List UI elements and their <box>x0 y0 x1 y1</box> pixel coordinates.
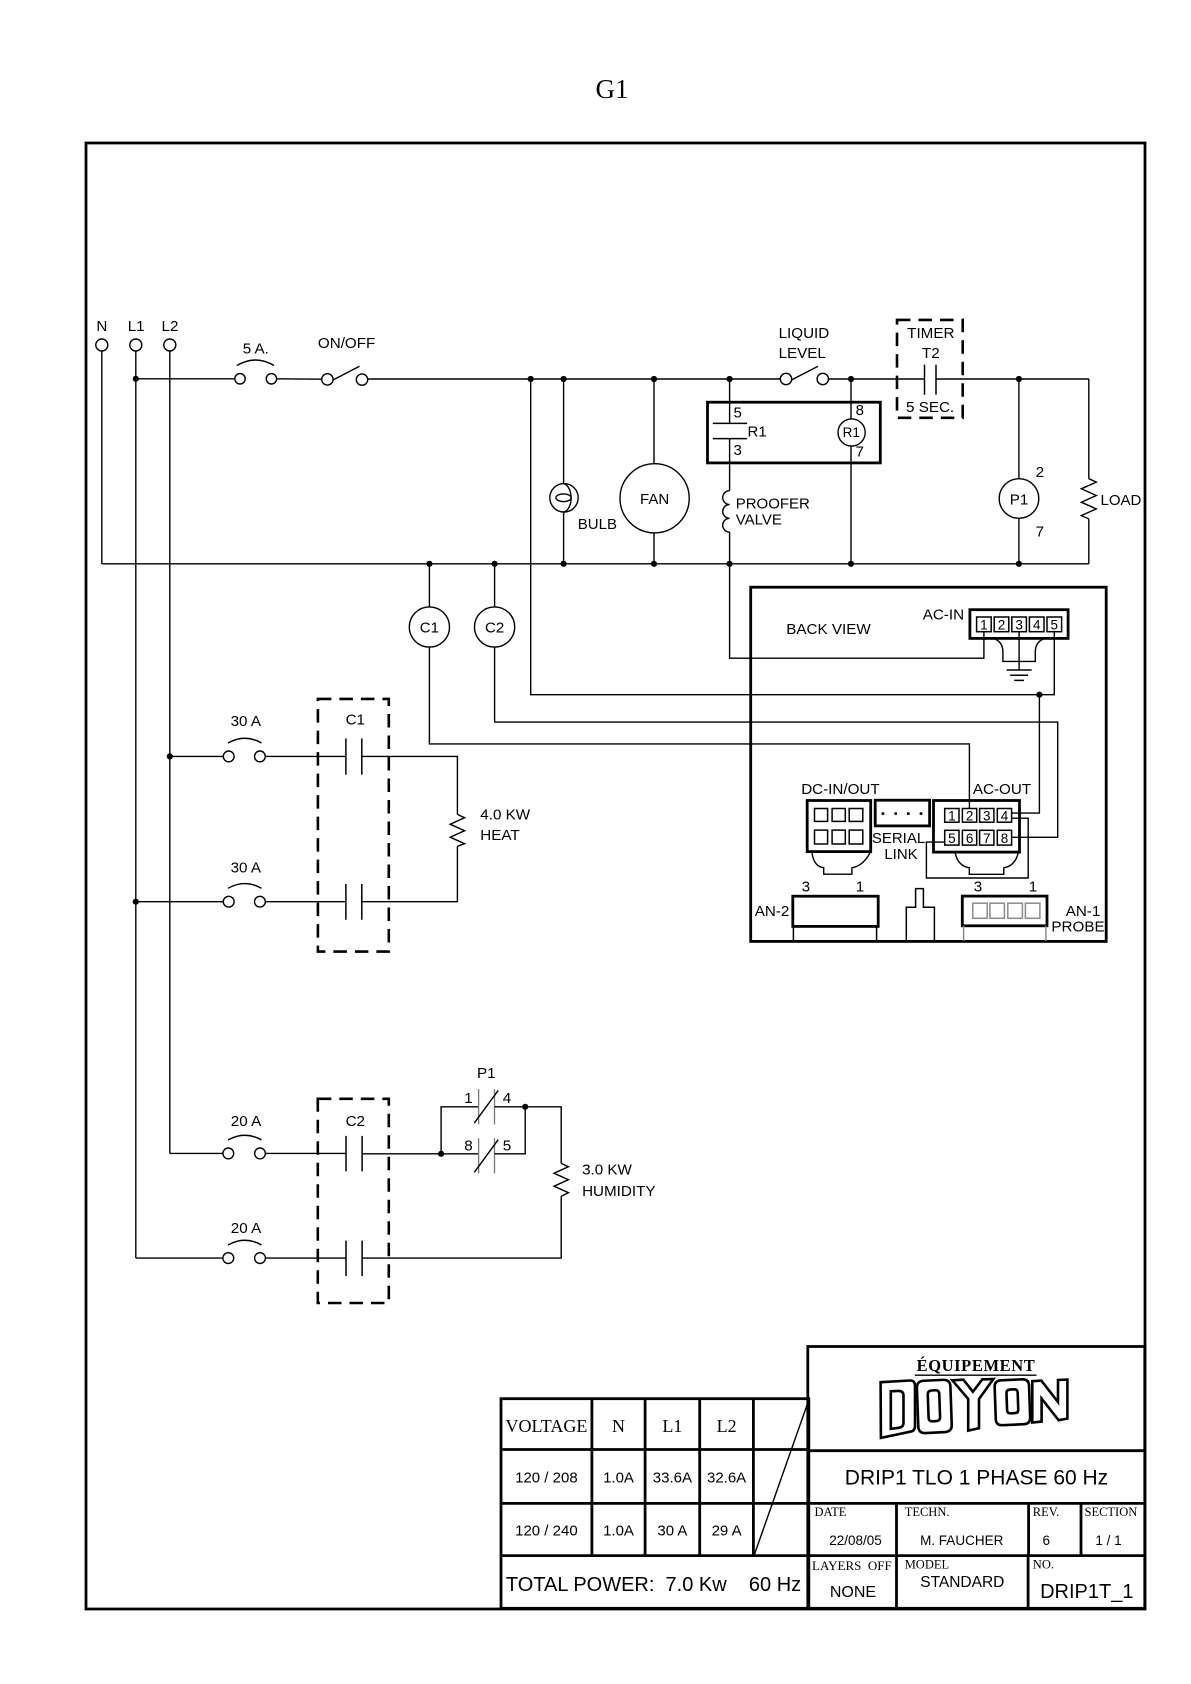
contactor C2 contact1 plates <box>346 1136 362 1172</box>
svg-text:AN-2: AN-2 <box>755 903 790 920</box>
breaker 20A row1 contacts <box>223 1148 234 1159</box>
junction P1 block left <box>438 1151 444 1157</box>
svg-text:4: 4 <box>1001 808 1009 823</box>
wire L2 to breaker1 <box>170 755 224 757</box>
terminal L1 <box>130 339 142 351</box>
wire heater to C1 contact2 <box>362 846 458 901</box>
svg-text:SERIAL: SERIAL <box>872 830 925 847</box>
svg-text:5: 5 <box>948 831 956 846</box>
svg-text:33.6A: 33.6A <box>653 1470 692 1487</box>
fuse F1 arc <box>237 360 274 366</box>
wire breaker4 to C2 contact2 <box>265 1257 346 1259</box>
svg-text:6: 6 <box>966 831 974 846</box>
motor FAN <box>620 464 689 533</box>
breaker 30A row1 contacts <box>223 751 234 762</box>
connector DC-IN/OUT outline <box>807 801 871 852</box>
wire L1 to breaker2 <box>136 901 224 903</box>
wire AC-IN pin2 arc <box>994 639 1045 662</box>
wire AC-IN feed <box>531 379 1055 695</box>
wire L1 to breaker4 <box>136 1257 223 1259</box>
svg-text:ÉQUIPEMENT: ÉQUIPEMENT <box>917 1356 1036 1375</box>
logo DOYON letter D <box>881 1380 915 1437</box>
voltage table row lines <box>501 1450 809 1556</box>
wire P1 coil bottom <box>1018 518 1020 564</box>
timer T2 contact plates <box>925 365 937 395</box>
voltage table outline <box>501 1399 809 1609</box>
svg-text:3: 3 <box>974 878 982 895</box>
junction top AC-IN drop <box>528 376 534 382</box>
wire timer to load corner <box>936 378 1089 380</box>
svg-text:7: 7 <box>1036 524 1044 541</box>
svg-text:T2: T2 <box>922 345 940 362</box>
svg-text:1 / 1: 1 / 1 <box>1095 1533 1121 1548</box>
svg-text:1.0A: 1.0A <box>603 1523 634 1540</box>
svg-text:29 A: 29 A <box>712 1523 742 1540</box>
keying post <box>906 889 934 941</box>
wire P1 contact 1-4 right <box>495 1106 526 1108</box>
svg-text:VALVE: VALVE <box>736 511 782 528</box>
connector AC-OUT outline <box>934 801 1020 853</box>
junction bottom R1 <box>848 561 854 567</box>
svg-text:SECTION: SECTION <box>1085 1505 1138 1519</box>
resistor 3.0KW HUMIDITY <box>554 1163 568 1196</box>
svg-text:DRIP1 TLO 1 PHASE 60 Hz: DRIP1 TLO 1 PHASE 60 Hz <box>845 1467 1108 1490</box>
svg-text:DC-IN/OUT: DC-IN/OUT <box>801 781 879 798</box>
svg-text:M. FAUCHER: M. FAUCHER <box>920 1533 1004 1548</box>
wire liquid level to timer <box>829 378 925 380</box>
svg-text:20 A: 20 A <box>231 1113 262 1130</box>
svg-text:ON/OFF: ON/OFF <box>318 335 375 352</box>
svg-text:30 A: 30 A <box>231 713 262 730</box>
junction P1 coil drop <box>1016 376 1022 382</box>
svg-text:7: 7 <box>983 831 991 846</box>
svg-text:3: 3 <box>802 878 810 895</box>
contactor coil C2 <box>475 607 515 647</box>
connector AN-2 box <box>793 896 878 926</box>
switch LIQUID LEVEL right contact <box>817 373 828 384</box>
switch P1 contact 8-5 plates <box>479 1138 495 1173</box>
wire P1 coil top <box>1018 379 1020 479</box>
svg-text:LIQUID: LIQUID <box>779 325 830 342</box>
terminal N <box>96 339 108 351</box>
logo DOYON letter Y <box>952 1379 993 1431</box>
connector AC-OUT pin numbers <box>948 808 1009 846</box>
svg-text:AC-OUT: AC-OUT <box>973 781 1031 798</box>
svg-text:5: 5 <box>503 1138 511 1155</box>
svg-text:4.0 KW: 4.0 KW <box>480 807 530 824</box>
inductor PROOFER VALVE <box>723 491 730 532</box>
resistor LOAD <box>1081 479 1096 519</box>
svg-text:2: 2 <box>998 618 1006 633</box>
svg-text:2: 2 <box>1036 464 1044 481</box>
junction L2 <box>167 753 173 759</box>
svg-text:20 A: 20 A <box>231 1220 262 1237</box>
wire breaker1 to C1 contact <box>265 755 346 757</box>
wire AC-IN pin3 to ground <box>1018 632 1020 670</box>
contactor C1 contact1 plates <box>346 739 362 775</box>
breaker 20A row2 contacts <box>223 1253 234 1264</box>
svg-text:8: 8 <box>856 402 864 419</box>
svg-text:6: 6 <box>1042 1533 1050 1548</box>
svg-text:LINK: LINK <box>884 846 917 863</box>
connector DC-IN/OUT housing <box>812 852 871 874</box>
svg-text:LAYERS OFF: LAYERS OFF <box>812 1558 892 1573</box>
switch P1 contact 1-4 slash <box>474 1090 498 1123</box>
svg-text:LOAD: LOAD <box>1101 492 1142 509</box>
svg-text:L1: L1 <box>128 318 145 335</box>
junction AC-IN pin5 <box>1036 692 1042 698</box>
wire C2 contact1 to P1 block <box>362 1153 441 1155</box>
svg-text:7: 7 <box>856 443 864 460</box>
resistor 4.0KW HEAT <box>450 814 464 846</box>
svg-text:TECHN.: TECHN. <box>905 1505 950 1519</box>
relay coil R1 circle <box>838 419 865 446</box>
svg-text:HUMIDITY: HUMIDITY <box>582 1183 655 1200</box>
wire P1 contact 8-5 right riser <box>495 1107 526 1154</box>
wire C2 coil top <box>494 564 496 607</box>
svg-text:8: 8 <box>1001 831 1009 846</box>
junction top fan drop <box>651 376 657 382</box>
svg-text:5: 5 <box>1051 618 1059 633</box>
switch ON/OFF right contact <box>356 374 367 385</box>
connector AN-1 box <box>962 896 1047 926</box>
svg-text:C1: C1 <box>346 712 365 729</box>
svg-text:AC-IN: AC-IN <box>923 607 964 624</box>
svg-text:30 A: 30 A <box>657 1523 687 1540</box>
svg-text:5: 5 <box>734 405 742 422</box>
title block outline <box>808 1347 1145 1609</box>
switch LIQUID LEVEL left contact <box>780 373 791 384</box>
wire load bottom <box>1088 519 1090 564</box>
connector AC-IN pin numbers <box>980 618 1058 633</box>
svg-text:VOLTAGE: VOLTAGE <box>505 1416 587 1436</box>
switch P1 contact 8-5 slash <box>474 1140 498 1173</box>
svg-text:3: 3 <box>1015 618 1023 633</box>
logo DOYON letter O2 <box>994 1379 1030 1425</box>
breaker 30A row1 arc <box>228 738 262 743</box>
junction bottom C2 <box>492 561 498 567</box>
relay R1 contact plates <box>713 423 747 438</box>
svg-text:L1: L1 <box>662 1416 682 1436</box>
contactor coil C1 <box>409 607 449 647</box>
connector AC-IN outline <box>970 610 1068 639</box>
svg-text:5 A.: 5 A. <box>243 341 269 358</box>
wire humidity to C2 contact2 <box>362 1196 561 1258</box>
svg-text:8: 8 <box>464 1138 472 1155</box>
switch P1 contact 1-4 plates <box>479 1089 495 1124</box>
svg-text:DRIP1T_1: DRIP1T_1 <box>1040 1581 1133 1603</box>
connector AC-OUT housing <box>955 852 1018 874</box>
svg-text:120 / 240: 120 / 240 <box>515 1523 578 1540</box>
row 120/208 <box>515 1470 746 1487</box>
junction L1 mid <box>133 899 139 905</box>
wire proofer valve bottom <box>729 532 731 564</box>
svg-text:1: 1 <box>948 808 956 823</box>
logo underline <box>915 1374 1037 1376</box>
junction P1 block right <box>522 1104 528 1110</box>
svg-text:G1: G1 <box>596 74 629 104</box>
breaker 30A row2 arc <box>228 884 262 889</box>
wire N to AC-IN pin1 <box>730 564 984 658</box>
wire N stem <box>101 351 103 564</box>
svg-text:NO.: NO. <box>1033 1558 1054 1572</box>
wire R1 coil bottom <box>850 446 852 564</box>
svg-text:STANDARD: STANDARD <box>920 1574 1004 1591</box>
svg-text:1: 1 <box>1029 878 1037 895</box>
svg-text:REV.: REV. <box>1033 1505 1060 1519</box>
timer T2 dashed box <box>897 320 963 418</box>
svg-text:C2: C2 <box>485 620 504 637</box>
switch ON/OFF left contact <box>322 374 333 385</box>
relay R1 contact pin5 wire <box>729 379 731 423</box>
wire C2 coil to AC-OUT pin8 <box>495 647 1058 837</box>
fuse F1 left contact <box>235 374 245 384</box>
svg-text:PROOFER: PROOFER <box>736 495 810 512</box>
contactor C1 dashed box <box>318 699 389 952</box>
svg-text:3: 3 <box>734 442 742 459</box>
svg-text:LEVEL: LEVEL <box>779 345 826 362</box>
voltage table column lines <box>592 1399 754 1556</box>
contactor C2 contact2 plates <box>346 1241 362 1277</box>
relay R1 contact box <box>708 402 881 463</box>
breaker 20A row1 arc <box>228 1135 262 1140</box>
svg-text:1: 1 <box>980 618 988 633</box>
title block column lines row3 <box>897 1503 1082 1555</box>
svg-text:L2: L2 <box>162 318 179 335</box>
breaker 20A row2 arc <box>228 1240 262 1245</box>
svg-text:120 / 208: 120 / 208 <box>515 1470 578 1487</box>
wire breaker3 to C2 contact1 <box>265 1152 346 1154</box>
fuse F1 right contact <box>266 374 276 384</box>
svg-text:3.0 KW: 3.0 KW <box>582 1162 632 1179</box>
row 120/240 <box>515 1523 741 1540</box>
svg-text:3: 3 <box>983 808 991 823</box>
connector AN-1 skirt <box>964 926 1046 941</box>
logo DOYON letter N <box>1032 1380 1067 1423</box>
svg-text:L2: L2 <box>717 1416 737 1436</box>
junction bottom bulb <box>561 561 567 567</box>
lamp BULB <box>550 484 578 512</box>
wire AC-OUT pin4 to pin5 loop <box>926 818 1028 878</box>
wire AC-IN pin5 to AC-OUT pin4 <box>1011 695 1039 813</box>
junction bottom C1 <box>426 561 432 567</box>
svg-text:P1: P1 <box>1010 491 1029 508</box>
svg-text:PROBE: PROBE <box>1051 919 1104 936</box>
connector DC-IN/OUT pin squares <box>815 809 863 845</box>
junction bottom valve <box>727 561 733 567</box>
wire L1 rail <box>135 351 137 1258</box>
contactor C1 contact2 plates <box>346 884 362 920</box>
serial link dots <box>882 812 923 815</box>
wire fan top <box>653 379 655 464</box>
junction R1 coil drop <box>848 376 854 382</box>
wire bottom rail N <box>102 563 1089 565</box>
svg-text:32.6A: 32.6A <box>707 1470 746 1487</box>
junction top relay drop <box>727 376 733 382</box>
title block row lines <box>808 1451 1145 1556</box>
svg-text:TIMER: TIMER <box>907 325 954 342</box>
junction bottom P1 <box>1016 561 1022 567</box>
junction top bulb drop <box>561 376 567 382</box>
junction bottom fan <box>651 561 657 567</box>
border frame <box>86 143 1145 1609</box>
svg-text:R1: R1 <box>748 423 767 440</box>
wire top rail <box>368 378 781 380</box>
svg-text:P1: P1 <box>477 1065 496 1082</box>
wire load top <box>1088 379 1090 479</box>
junction L1 top <box>133 376 139 382</box>
connector AC-IN pin squares <box>977 617 1062 632</box>
wire R1 coil top <box>850 379 852 419</box>
svg-text:N: N <box>96 318 107 335</box>
wire P1 bottom branch <box>441 1153 479 1155</box>
wire C1 coil to AC-OUT pin2 <box>429 647 969 808</box>
svg-text:N: N <box>612 1416 625 1436</box>
svg-text:C1: C1 <box>420 620 439 637</box>
contactor C2 dashed box <box>318 1099 389 1303</box>
svg-text:TOTAL POWER: 7.0 Kw 60 Hz: TOTAL POWER: 7.0 Kw 60 Hz <box>506 1574 801 1596</box>
wire L2 rail <box>169 351 171 1153</box>
wire L2 to breaker3 <box>170 1152 223 1154</box>
svg-text:1.0A: 1.0A <box>603 1470 634 1487</box>
svg-text:2: 2 <box>966 808 974 823</box>
breaker 30A row2 contacts <box>223 896 234 907</box>
svg-text:HEAT: HEAT <box>480 827 519 844</box>
svg-text:BACK VIEW: BACK VIEW <box>786 621 871 638</box>
svg-text:C2: C2 <box>346 1113 365 1130</box>
pilot P1 coil circle <box>999 479 1039 519</box>
svg-text:FAN: FAN <box>640 491 669 508</box>
wire fan bottom <box>653 533 655 564</box>
svg-text:NONE: NONE <box>830 1584 876 1601</box>
wire fuse to switch <box>277 378 322 380</box>
wire breaker2 to C1 contact2 <box>265 901 346 903</box>
voltage table diagonal <box>754 1400 809 1555</box>
connector SERIAL LINK box <box>875 800 929 826</box>
wire L1 to fuse <box>136 378 235 380</box>
svg-text:BULB: BULB <box>578 516 617 533</box>
svg-text:4: 4 <box>1033 618 1041 633</box>
svg-text:MODEL: MODEL <box>905 1558 949 1572</box>
svg-text:4: 4 <box>503 1090 511 1107</box>
controller BACK VIEW box <box>751 587 1106 941</box>
logo DOYON letter O1 <box>917 1380 952 1434</box>
svg-text:DATE: DATE <box>815 1505 847 1519</box>
svg-text:5 SEC.: 5 SEC. <box>906 399 954 416</box>
wire P1 block to humidity <box>525 1107 561 1164</box>
terminal L2 <box>164 339 176 351</box>
wire C1 contact1 to heater <box>362 756 458 814</box>
wire bulb bottom <box>563 512 565 564</box>
switch LIQUID LEVEL blade <box>792 366 819 380</box>
connector AC-OUT pin squares <box>945 809 1012 846</box>
switch ON/OFF blade <box>333 366 360 380</box>
svg-text:30 A: 30 A <box>231 860 262 877</box>
relay R1 contact pin3 wire <box>729 439 731 491</box>
svg-text:AN-1: AN-1 <box>1066 903 1101 920</box>
wire bulb top <box>563 379 565 484</box>
svg-text:1: 1 <box>464 1090 472 1107</box>
wire P1 left riser <box>441 1107 479 1154</box>
ground symbol <box>1007 670 1032 680</box>
svg-text:22/08/05: 22/08/05 <box>829 1533 882 1548</box>
svg-text:R1: R1 <box>843 425 860 440</box>
title block column lines row4 <box>897 1556 1029 1609</box>
wire C1 coil top <box>428 564 430 607</box>
svg-text:1: 1 <box>856 878 864 895</box>
connector AN-1 pin squares <box>973 903 1040 918</box>
connector AN-2 skirt <box>793 927 876 941</box>
